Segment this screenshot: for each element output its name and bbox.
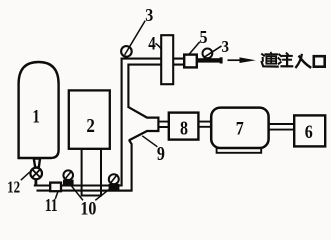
- circle valve at top bend (item 3 left): [121, 46, 132, 57]
- needle / leader to label 3 right: [204, 46, 222, 58]
- char ru: [296, 55, 310, 67]
- box 6: [294, 115, 325, 146]
- wire valve to pipe stem: [35, 179, 38, 187]
- gauge G2 circle: [109, 174, 119, 184]
- svg-text:6: 6: [305, 122, 313, 143]
- char zhu: [279, 53, 293, 66]
- char tong: [262, 53, 278, 67]
- label 9 with leader: [142, 136, 157, 147]
- gauge G1 (item 10 left) base: [63, 180, 74, 187]
- svg-text:8: 8: [180, 117, 188, 139]
- svg-text:1: 1: [32, 107, 40, 128]
- char kou: [314, 56, 325, 66]
- gauge G3 (item 3 right) circle: [203, 49, 213, 59]
- svg-text:3: 3: [145, 5, 153, 25]
- svg-text:10: 10: [80, 198, 96, 217]
- arrow to inlet: [228, 59, 244, 61]
- box 2: [69, 90, 110, 148]
- svg-text:7: 7: [236, 118, 244, 139]
- label 12 with leader: [21, 172, 30, 180]
- valve stem above: [34, 159, 40, 168]
- wire bottom pipe over pedestal: [80, 186, 132, 191]
- funnel nozzle (item 9): [129, 107, 159, 140]
- wire nozzle to box 8: [159, 122, 169, 127]
- gauge G1 circle: [63, 170, 73, 180]
- wire main pipe outer path bottom segment: [37, 140, 132, 191]
- box 8: [169, 113, 199, 140]
- base of box 7: [217, 148, 262, 153]
- component 5 square: [184, 55, 197, 68]
- leader to label 3 top: [125, 21, 146, 55]
- svg-text:9: 9: [157, 143, 165, 165]
- label 10 with leaders: [70, 185, 112, 201]
- wire main pipe inner path (top line of bottom pipe, left line of riser, top line of top pipe): [34, 59, 184, 186]
- box 4 tall rect on top pipe: [161, 35, 173, 84]
- svg-text:3: 3: [222, 37, 230, 56]
- wire box 8 to box 7: [199, 122, 211, 127]
- svg-text:2: 2: [86, 115, 95, 137]
- svg-text:11: 11: [45, 195, 58, 215]
- label 11 with leader: [55, 192, 58, 199]
- svg-text:4: 4: [148, 34, 156, 55]
- gauge G2 (item 10 right) base: [109, 184, 120, 190]
- box 7 rounded: [211, 108, 268, 148]
- tank 1: [19, 62, 59, 158]
- leader 4: [155, 43, 161, 49]
- thick outlet bar after 5: [197, 58, 221, 62]
- leader 5: [189, 42, 200, 55]
- component 11 square on pipe: [50, 183, 61, 192]
- svg-text:12: 12: [7, 178, 20, 197]
- svg-text:5: 5: [200, 27, 208, 47]
- wire riser right line upper segment and top pipe bottom line: [128, 65, 184, 108]
- pedestal of box 2: [82, 149, 101, 196]
- wire box 7 to box 6: [269, 124, 294, 130]
- label 通注入口 drawn as strokes: [262, 53, 325, 68]
- valve V1 (item 12) circle with X: [30, 168, 42, 180]
